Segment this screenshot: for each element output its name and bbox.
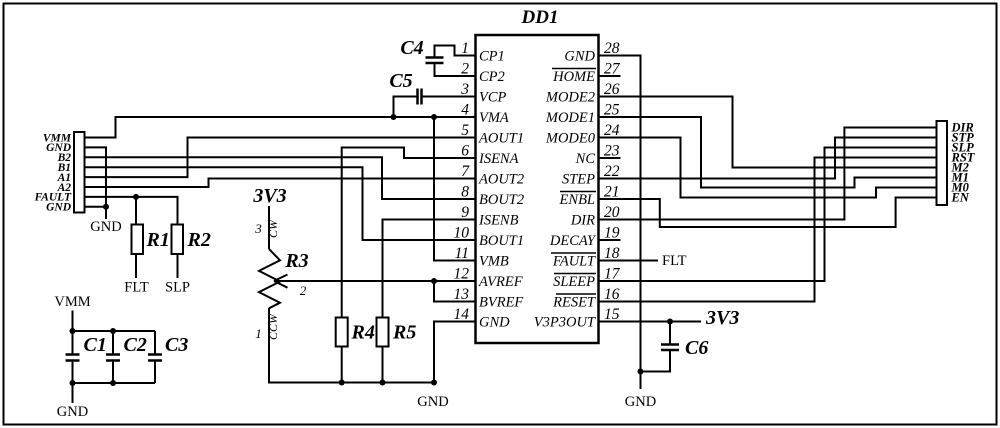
wire FAULT row to R1 R2 <box>85 197 178 225</box>
svg-text:10: 10 <box>454 225 470 242</box>
wire pin26 MODE2 to M2 <box>598 97 937 168</box>
svg-text:25: 25 <box>604 102 620 119</box>
wire R3 bottom to ground rail <box>269 308 434 382</box>
wire VMM row to pin4 VMA <box>85 117 477 138</box>
wire pin14 GND down <box>434 322 476 383</box>
active-low overlines <box>551 69 596 295</box>
svg-text:FLT: FLT <box>662 253 687 269</box>
wire pin19 stub <box>598 239 621 241</box>
svg-text:C6: C6 <box>685 337 708 359</box>
svg-text:26: 26 <box>604 81 620 98</box>
svg-text:24: 24 <box>604 122 620 139</box>
chip left pin labels <box>478 49 524 331</box>
resistor R1 leads <box>135 254 137 278</box>
wire pin15 V3P3OUT to 3V3 <box>598 321 701 323</box>
svg-text:28: 28 <box>604 40 620 57</box>
svg-text:NC: NC <box>575 151 596 167</box>
svg-text:R3: R3 <box>284 250 308 272</box>
resistor R2 body <box>172 225 184 255</box>
svg-text:R5: R5 <box>392 322 416 344</box>
svg-text:16: 16 <box>604 286 620 303</box>
svg-text:27: 27 <box>604 61 621 78</box>
resistor R4 body <box>336 318 348 347</box>
svg-text:19: 19 <box>604 225 620 242</box>
left connector labels <box>34 132 72 213</box>
svg-text:3: 3 <box>254 221 262 236</box>
wire pin23 stub <box>598 157 621 159</box>
svg-text:V3P3OUT: V3P3OUT <box>534 315 596 331</box>
wire VMB vertical pin11 <box>434 117 476 261</box>
wire AVREF to BVREF pin13 <box>434 281 476 302</box>
wire ISENB pin9 to R5 <box>383 220 477 318</box>
wire pin27 stub <box>598 75 621 77</box>
capacitor C6 <box>641 322 671 372</box>
wire ISENA pin6 to R4 <box>342 148 476 318</box>
svg-text:9: 9 <box>461 204 469 221</box>
svg-text:CP2: CP2 <box>479 69 505 85</box>
svg-text:5: 5 <box>461 122 469 139</box>
svg-text:AOUT1: AOUT1 <box>478 131 524 147</box>
right connector XP2 <box>937 121 948 205</box>
svg-text:1: 1 <box>461 40 469 57</box>
wire bottom rail to GND label <box>72 383 74 403</box>
wire pin16 RESET to RST <box>598 158 937 302</box>
resistor R1 body <box>132 225 144 255</box>
op-amp U1 chip body DD1 <box>476 35 599 343</box>
potentiometer R3 wiper arrow to pin12 AVREF <box>274 275 476 288</box>
svg-text:VMM: VMM <box>54 294 90 310</box>
svg-text:AOUT2: AOUT2 <box>478 172 524 188</box>
svg-text:13: 13 <box>454 286 470 303</box>
svg-text:SLEEP: SLEEP <box>553 274 595 290</box>
svg-text:MODE0: MODE0 <box>545 131 596 147</box>
resistor R5 body <box>377 318 389 347</box>
svg-text:C2: C2 <box>124 334 147 356</box>
svg-text:17: 17 <box>604 266 621 283</box>
svg-text:HOME: HOME <box>552 69 595 85</box>
svg-text:GND: GND <box>625 394 656 410</box>
svg-text:8: 8 <box>461 184 469 201</box>
svg-text:R4: R4 <box>351 322 375 344</box>
svg-text:GND: GND <box>90 219 121 235</box>
svg-text:1: 1 <box>255 326 262 341</box>
wire pin28 GND down to ground <box>598 56 641 390</box>
svg-text:AVREF: AVREF <box>478 274 523 290</box>
wire GND row2 down to GND row8 <box>85 147 107 219</box>
svg-text:VMA: VMA <box>479 110 509 126</box>
capacitor bottom rail <box>73 382 156 384</box>
svg-text:MODE1: MODE1 <box>545 110 595 126</box>
wire pin17 SLEEP to SLP <box>598 148 937 282</box>
svg-text:FLT: FLT <box>124 280 149 296</box>
svg-text:C5: C5 <box>389 70 412 92</box>
wire pin21 ENBL to EN <box>598 198 937 228</box>
wire pin20 DIR to DIR <box>598 128 937 220</box>
capacitor C5 <box>394 97 477 118</box>
svg-text:DECAY: DECAY <box>549 233 597 249</box>
wire A2 row to pin7 AOUT2 <box>85 179 477 188</box>
svg-text:VCP: VCP <box>479 90 507 106</box>
svg-text:CW: CW <box>266 219 280 238</box>
svg-text:ENBL: ENBL <box>559 192 595 208</box>
potentiometer R3 zigzag <box>259 249 280 308</box>
svg-text:3V3: 3V3 <box>252 185 286 207</box>
svg-text:R2: R2 <box>187 229 211 251</box>
right connector labels <box>951 121 976 205</box>
chip right pin labels <box>534 49 597 331</box>
svg-text:ISENB: ISENB <box>478 213 519 229</box>
svg-text:C1: C1 <box>84 334 107 356</box>
svg-text:STEP: STEP <box>562 172 595 188</box>
svg-text:BVREF: BVREF <box>479 295 523 311</box>
wire pin24 MODE0 to M0 <box>598 138 937 198</box>
svg-text:20: 20 <box>604 204 620 221</box>
chip right pin numbers <box>604 40 621 323</box>
svg-text:3: 3 <box>460 81 469 98</box>
chip left pin numbers <box>454 40 471 323</box>
svg-text:7: 7 <box>461 163 470 180</box>
svg-text:2: 2 <box>300 283 307 298</box>
svg-text:GND: GND <box>46 202 72 214</box>
svg-text:C3: C3 <box>165 334 188 356</box>
svg-text:GND: GND <box>57 404 88 420</box>
svg-text:GND: GND <box>479 315 510 331</box>
svg-text:RESET: RESET <box>552 295 596 311</box>
wire B1 row to pin10 BOUT1 <box>85 167 477 240</box>
svg-text:22: 22 <box>604 163 620 180</box>
wire pin25 MODE1 to M1 <box>598 117 937 188</box>
wire pin22 STEP to STP <box>598 138 937 179</box>
capacitor C4 <box>435 46 477 77</box>
resistor R4 bottom lead <box>341 347 343 383</box>
svg-text:11: 11 <box>455 245 469 262</box>
svg-text:14: 14 <box>454 306 470 323</box>
svg-text:R1: R1 <box>146 229 170 251</box>
svg-text:2: 2 <box>461 61 469 78</box>
svg-text:3V3: 3V3 <box>705 307 739 329</box>
resistor R2 leads <box>177 254 179 278</box>
svg-text:CP1: CP1 <box>479 49 505 65</box>
capacitor C2 <box>112 331 114 383</box>
wire GND row8 <box>85 206 107 208</box>
left connector XP1 <box>74 132 85 213</box>
svg-text:FAULT: FAULT <box>552 254 596 270</box>
svg-text:BOUT1: BOUT1 <box>479 233 524 249</box>
svg-text:DIR: DIR <box>570 213 595 229</box>
capacitor C1 <box>72 331 74 383</box>
svg-text:12: 12 <box>454 266 470 283</box>
svg-text:GND: GND <box>564 49 595 65</box>
svg-text:ISENA: ISENA <box>478 151 519 167</box>
capacitor C3 <box>154 331 156 383</box>
resistor R5 bottom lead <box>382 347 384 383</box>
svg-text:15: 15 <box>604 306 620 323</box>
svg-text:6: 6 <box>461 143 469 160</box>
svg-text:18: 18 <box>604 245 620 262</box>
wire B2 row to pin8 BOUT2 <box>85 157 477 199</box>
svg-text:BOUT2: BOUT2 <box>479 192 524 208</box>
svg-text:CCW: CCW <box>266 313 280 340</box>
svg-text:C4: C4 <box>400 37 423 59</box>
wire 3V3 stub to R3 <box>268 206 270 249</box>
wire A1 row to pin5 AOUT1 <box>85 138 477 178</box>
svg-text:21: 21 <box>604 184 620 201</box>
wire VMM label to C1 rail <box>72 311 74 332</box>
svg-text:EN: EN <box>951 191 970 205</box>
svg-text:VMB: VMB <box>479 254 509 270</box>
wire pin18 FAULT to FLT label <box>598 260 658 262</box>
svg-text:DD1: DD1 <box>521 7 559 28</box>
capacitor top rail C1 C2 C3 <box>73 330 156 332</box>
svg-text:MODE2: MODE2 <box>545 90 595 106</box>
svg-text:4: 4 <box>461 102 469 119</box>
svg-text:SLP: SLP <box>165 280 190 296</box>
svg-text:23: 23 <box>604 143 620 160</box>
svg-text:GND: GND <box>417 394 448 410</box>
